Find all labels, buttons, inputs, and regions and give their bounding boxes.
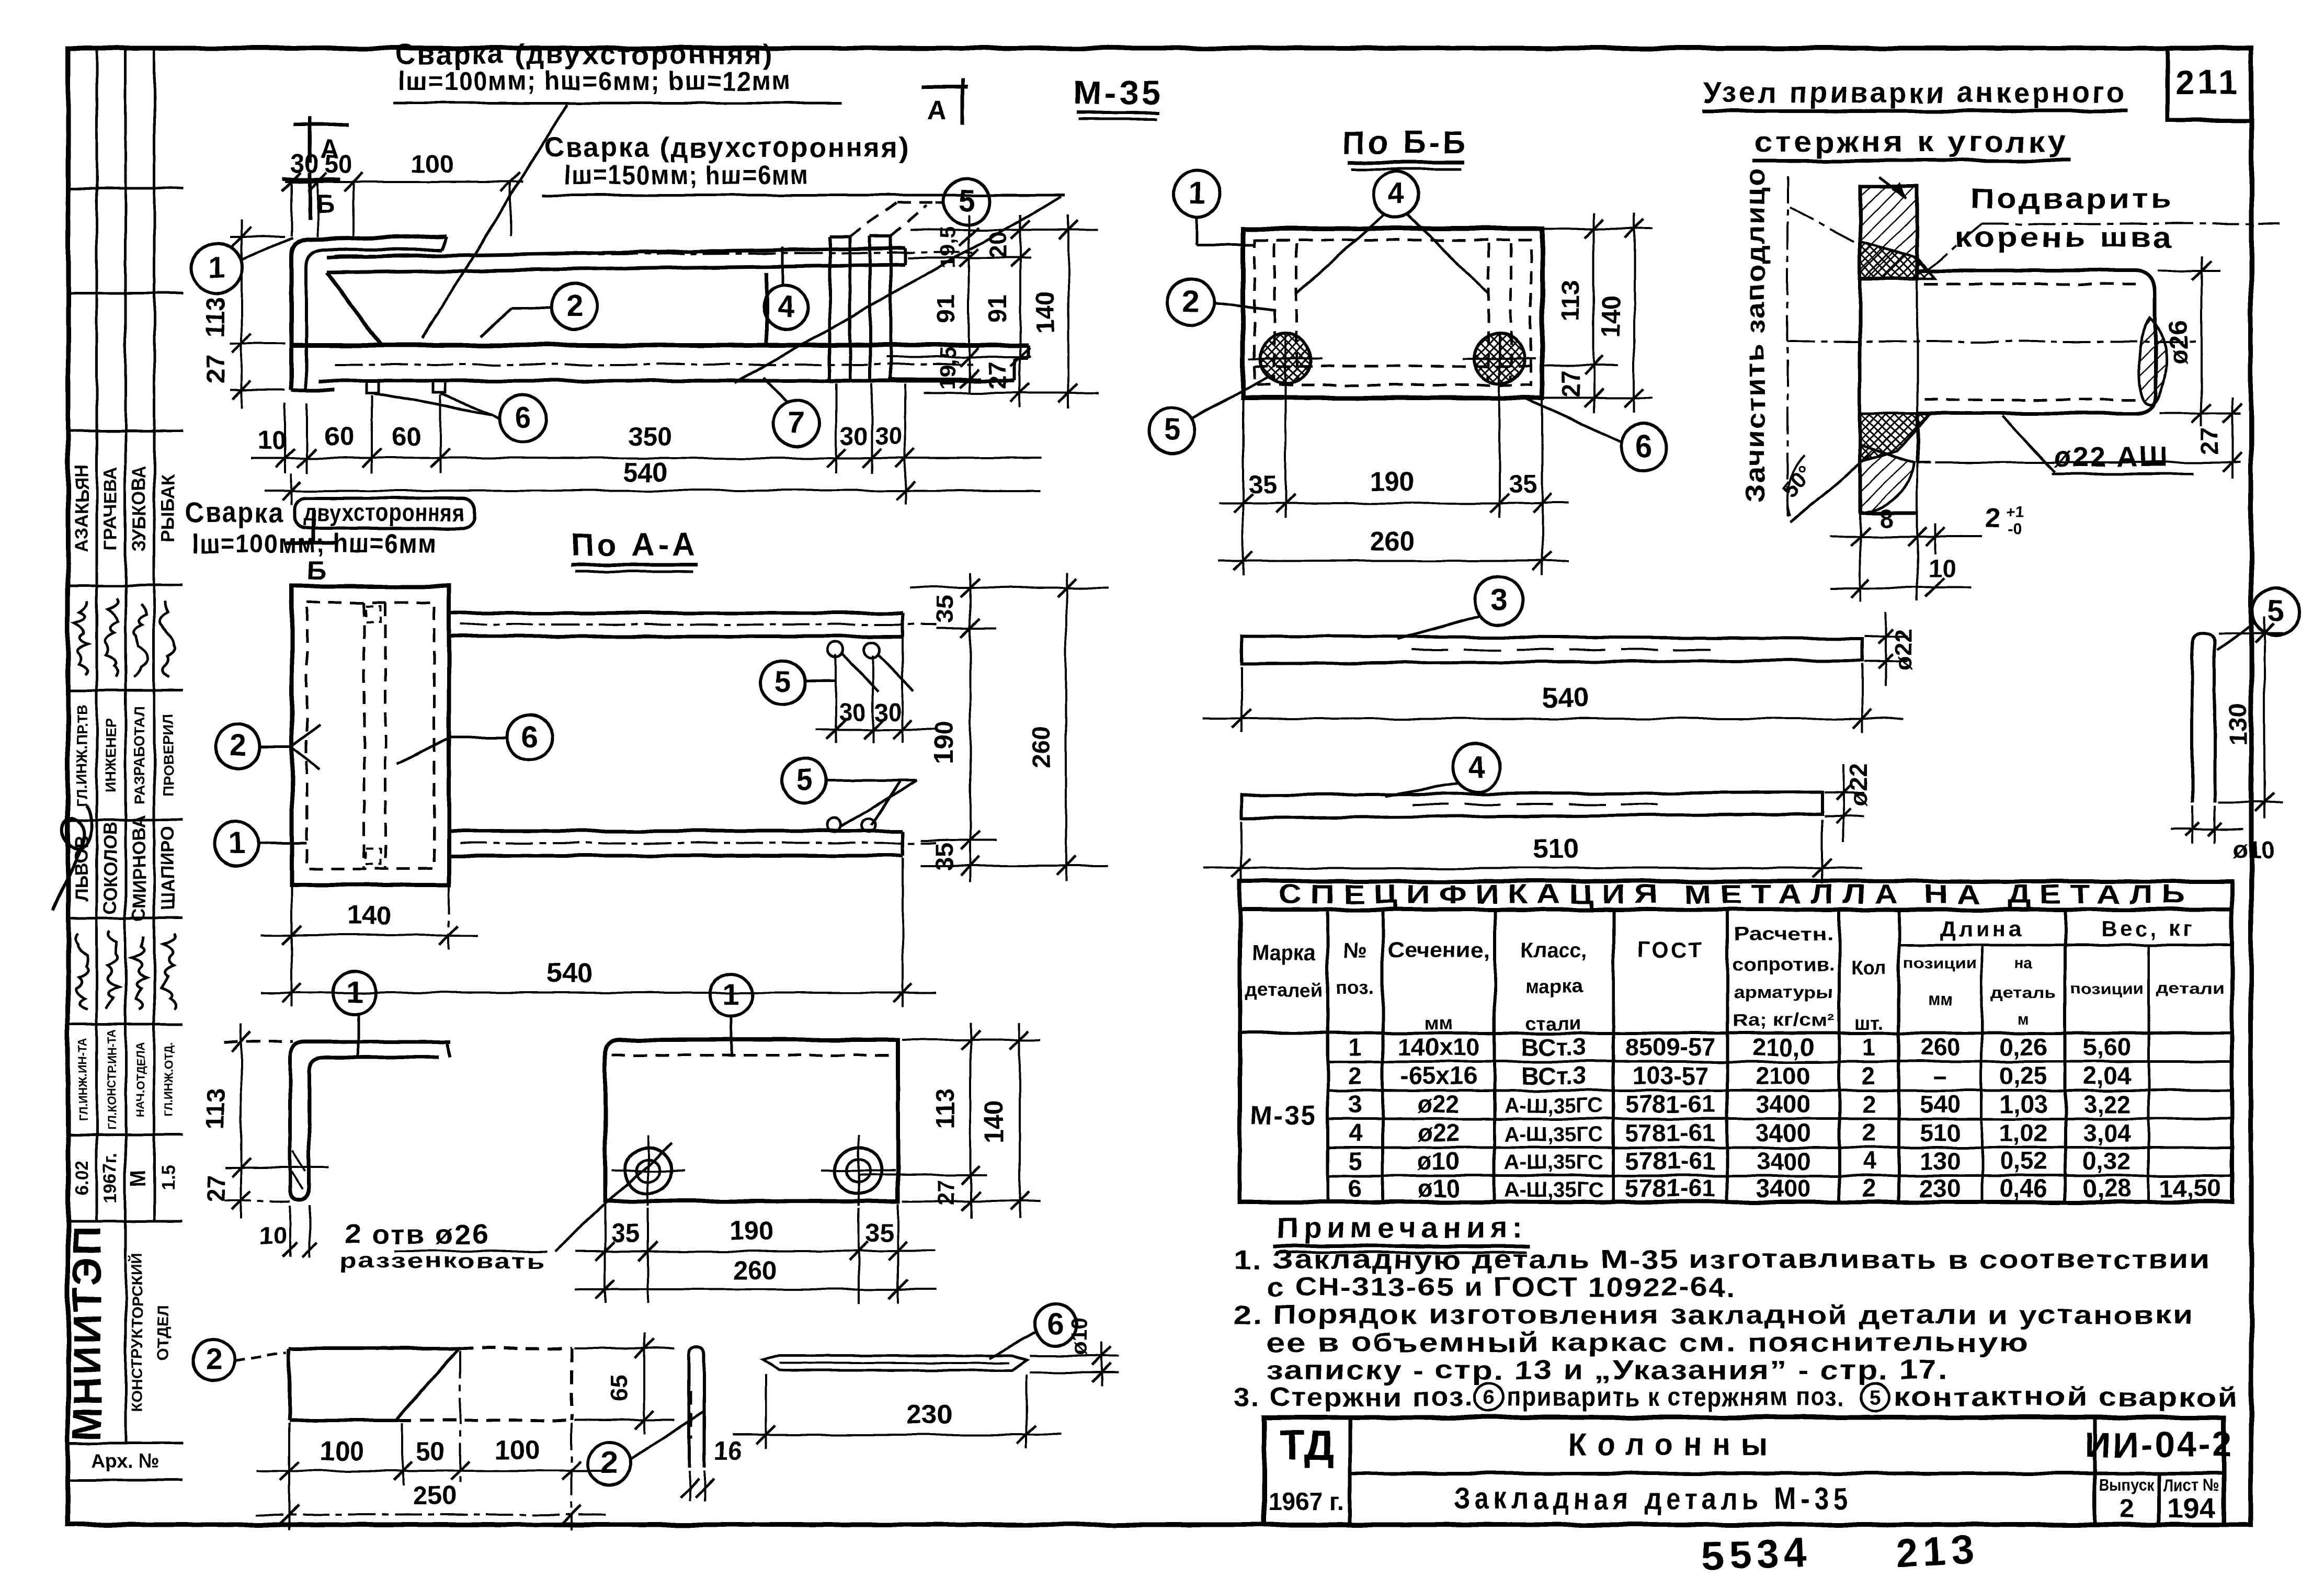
svg-text:ГРАЧЕВА: ГРАЧЕВА [100, 467, 121, 550]
svg-text:Б: Б [316, 189, 335, 219]
svg-text:ø22: ø22 [1844, 764, 1872, 806]
svg-text:2: 2 [1348, 1062, 1362, 1089]
svg-text:100: 100 [411, 150, 453, 178]
svg-text:МНИИТЭП: МНИИТЭП [65, 1224, 110, 1442]
svg-text:5534: 5534 [1701, 1530, 1813, 1579]
svg-text:1,02: 1,02 [1999, 1119, 2047, 1147]
svg-text:РАЗРАБОТАЛ: РАЗРАБОТАЛ [131, 706, 147, 804]
svg-text:ГЛ.ИНЖ.ОТД.: ГЛ.ИНЖ.ОТД. [163, 1042, 176, 1117]
svg-text:ОТДЕЛ: ОТДЕЛ [155, 1306, 172, 1359]
svg-text:ø22: ø22 [1889, 629, 1917, 671]
svg-text:91: 91 [984, 294, 1012, 323]
svg-text:М-35: М-35 [1073, 73, 1164, 112]
svg-text:2 отв ø26: 2 отв ø26 [345, 1219, 490, 1250]
svg-text:210,0: 210,0 [1752, 1033, 1814, 1061]
svg-text:2: 2 [1862, 1174, 1876, 1202]
svg-text:№: № [1343, 939, 1367, 962]
svg-text:детали: детали [2156, 980, 2224, 997]
svg-text:65: 65 [605, 1375, 633, 1402]
svg-text:1: 1 [1862, 1033, 1876, 1061]
svg-text:А-Ш,35ГС: А-Ш,35ГС [1504, 1094, 1603, 1117]
svg-text:приварить к стержням поз.: приварить к стержням поз. [1507, 1382, 1845, 1412]
svg-text:6.02: 6.02 [72, 1160, 92, 1196]
svg-text:260: 260 [1920, 1033, 1961, 1061]
svg-text:2: 2 [601, 1446, 618, 1480]
svg-text:lш=150мм; hш=6мм: lш=150мм; hш=6мм [564, 160, 810, 190]
svg-text:3. Стержни поз.: 3. Стержни поз. [1234, 1382, 1474, 1412]
svg-text:1: 1 [723, 977, 740, 1011]
svg-text:ø22 АШ: ø22 АШ [2054, 441, 2169, 473]
svg-text:6: 6 [1636, 429, 1653, 463]
svg-text:30: 30 [290, 150, 319, 178]
svg-text:ВСт.3: ВСт.3 [1521, 1062, 1586, 1089]
svg-text:130: 130 [1920, 1147, 1961, 1175]
svg-text:Марка: Марка [1252, 941, 1317, 964]
svg-text:ВСт.3: ВСт.3 [1521, 1033, 1586, 1061]
svg-text:211: 211 [2175, 63, 2240, 101]
svg-text:Узел приварки анкерного: Узел приварки анкерного [1703, 76, 2127, 109]
svg-text:двухсторонняя: двухсторонняя [303, 498, 465, 526]
svg-text:ЗУБКОВА: ЗУБКОВА [129, 466, 150, 552]
svg-text:Класс,: Класс, [1520, 939, 1587, 962]
svg-text:2: 2 [1182, 285, 1199, 319]
svg-text:35: 35 [865, 1219, 894, 1247]
svg-text:Вес, кг: Вес, кг [2101, 916, 2195, 941]
svg-text:2. Порядок изготовления заклад: 2. Порядок изготовления закладной детали… [1234, 1300, 2193, 1330]
svg-text:5,60: 5,60 [2083, 1033, 2131, 1061]
svg-text:190: 190 [930, 721, 959, 764]
svg-text:1: 1 [346, 975, 363, 1009]
svg-text:А-Ш,35ГС: А-Ш,35ГС [1504, 1178, 1603, 1201]
svg-text:корень шва: корень шва [1955, 222, 2174, 253]
svg-text:14,50: 14,50 [2159, 1174, 2221, 1202]
svg-text:Б: Б [307, 555, 326, 585]
svg-text:5: 5 [1348, 1147, 1362, 1175]
svg-text:50: 50 [416, 1438, 445, 1466]
svg-text:510: 510 [1532, 833, 1579, 864]
svg-text:-0: -0 [2008, 521, 2022, 538]
svg-text:Сварка (двухсторонняя): Сварка (двухсторонняя) [395, 39, 774, 70]
svg-text:2: 2 [1862, 1062, 1876, 1089]
svg-text:ø10: ø10 [1067, 1318, 1091, 1355]
svg-text:ТД: ТД [1280, 1422, 1334, 1468]
svg-text:ее в объемный каркас см. поясн: ее в объемный каркас см. пояснительную [1267, 1327, 2029, 1357]
svg-text:250: 250 [412, 1481, 456, 1511]
svg-text:190: 190 [1370, 467, 1414, 496]
svg-text:3400: 3400 [1756, 1174, 1811, 1202]
svg-text:РЫБАК: РЫБАК [158, 474, 178, 542]
svg-text:СПЕЦИФИКАЦИЯ МЕТАЛЛА НА ДЕТАЛЬ: СПЕЦИФИКАЦИЯ МЕТАЛЛА НА ДЕТАЛЬ [1279, 879, 2194, 909]
svg-text:5: 5 [1164, 413, 1180, 447]
svg-text:5: 5 [774, 665, 791, 699]
svg-text:контактной сваркой: контактной сваркой [1894, 1382, 2239, 1412]
svg-text:А: А [928, 95, 947, 125]
svg-text:230: 230 [1920, 1174, 1961, 1202]
svg-text:190: 190 [729, 1216, 773, 1245]
svg-text:шт.: шт. [1854, 1012, 1884, 1034]
svg-text:4: 4 [777, 290, 794, 324]
svg-text:мм: мм [1928, 990, 1953, 1009]
svg-text:5781-61: 5781-61 [1625, 1147, 1716, 1175]
svg-text:ГЛ.ИНЖ.ИН-ТА: ГЛ.ИНЖ.ИН-ТА [76, 1038, 89, 1121]
svg-text:27: 27 [201, 355, 230, 384]
svg-text:Длина: Длина [1940, 916, 2024, 941]
svg-text:113: 113 [201, 296, 230, 337]
svg-text:0,25: 0,25 [1999, 1062, 2047, 1089]
svg-text:А-Ш,35ГС: А-Ш,35ГС [1504, 1123, 1603, 1146]
svg-text:1: 1 [1189, 176, 1205, 210]
svg-text:0,46: 0,46 [1999, 1174, 2047, 1202]
svg-text:марка: марка [1525, 975, 1582, 997]
svg-text:СОКОЛОВ: СОКОЛОВ [100, 822, 121, 914]
svg-text:35: 35 [930, 596, 958, 623]
svg-text:позиции: позиции [1904, 955, 1977, 972]
svg-text:Расчетн.: Расчетн. [1734, 924, 1833, 945]
svg-text:По Б-Б: По Б-Б [1342, 124, 1469, 160]
svg-text:5: 5 [796, 763, 813, 797]
svg-text:140: 140 [347, 901, 391, 930]
svg-text:5781-61: 5781-61 [1625, 1090, 1716, 1118]
svg-text:2: 2 [205, 1342, 222, 1376]
svg-text:сопротив.: сопротив. [1733, 954, 1835, 974]
svg-text:27: 27 [933, 1180, 959, 1206]
svg-text:7: 7 [788, 406, 804, 440]
svg-text:+1: +1 [2006, 504, 2024, 521]
svg-text:27: 27 [1557, 370, 1585, 398]
svg-text:стержня к уголку: стержня к уголку [1755, 125, 2068, 158]
svg-text:Ra; кг/см²: Ra; кг/см² [1733, 1011, 1835, 1030]
svg-text:4: 4 [1388, 177, 1405, 211]
svg-text:ø22: ø22 [1418, 1090, 1460, 1118]
svg-text:1967г.: 1967г. [100, 1152, 121, 1204]
svg-text:30: 30 [874, 698, 902, 726]
svg-text:3400: 3400 [1756, 1119, 1811, 1147]
svg-text:50: 50 [325, 150, 354, 178]
svg-text:1.5: 1.5 [158, 1165, 178, 1191]
svg-text:30: 30 [875, 422, 902, 450]
svg-text:ГЛ.КОНСТР.ИН-ТА: ГЛ.КОНСТР.ИН-ТА [105, 1029, 118, 1130]
svg-text:91: 91 [932, 294, 961, 323]
svg-text:0,26: 0,26 [1999, 1033, 2047, 1061]
svg-text:арматуры: арматуры [1734, 982, 1833, 1002]
svg-text:ГОСТ: ГОСТ [1637, 937, 1704, 962]
svg-text:деталей: деталей [1245, 979, 1323, 1001]
svg-text:350: 350 [628, 422, 672, 451]
svg-text:6: 6 [1483, 1386, 1495, 1409]
svg-text:540: 540 [1920, 1090, 1961, 1118]
svg-text:27: 27 [2196, 427, 2224, 455]
svg-text:ø10: ø10 [1418, 1147, 1460, 1175]
svg-text:М: М [127, 1169, 150, 1186]
svg-text:4: 4 [1348, 1119, 1362, 1147]
svg-text:2: 2 [1862, 1090, 1876, 1118]
svg-text:ø10: ø10 [2233, 835, 2275, 863]
svg-text:60: 60 [392, 422, 421, 451]
svg-text:6: 6 [1348, 1174, 1362, 1202]
svg-text:раззенковать: раззенковать [340, 1250, 546, 1273]
svg-text:ИИ-04-2: ИИ-04-2 [2085, 1425, 2234, 1465]
svg-text:19,5: 19,5 [935, 347, 960, 390]
svg-text:Подварить: Подварить [1970, 183, 2174, 214]
svg-text:140: 140 [981, 1100, 1009, 1143]
svg-text:1: 1 [229, 826, 245, 860]
svg-text:27: 27 [984, 362, 1011, 389]
svg-text:2100: 2100 [1756, 1062, 1811, 1089]
svg-text:540: 540 [623, 457, 667, 487]
svg-text:НАЧ.ОТДЕЛА: НАЧ.ОТДЕЛА [134, 1042, 147, 1117]
svg-text:ø26: ø26 [2164, 321, 2193, 365]
svg-text:19,5: 19,5 [935, 226, 960, 269]
svg-text:6: 6 [515, 401, 531, 435]
svg-text:5: 5 [2268, 594, 2284, 628]
svg-text:записку - стр. 13 и „Указания”: записку - стр. 13 и „Указания” - стр. 17… [1267, 1355, 1949, 1385]
svg-text:мм: мм [1425, 1012, 1453, 1034]
svg-text:1,03: 1,03 [1999, 1090, 2047, 1118]
svg-text:ИНЖЕНЕР: ИНЖЕНЕР [102, 718, 119, 792]
svg-text:103-57: 103-57 [1632, 1062, 1708, 1089]
svg-text:Закладная деталь М-35: Закладная деталь М-35 [1454, 1482, 1852, 1516]
svg-text:1: 1 [209, 250, 225, 284]
svg-text:35: 35 [1248, 470, 1277, 498]
svg-text:3,22: 3,22 [2083, 1090, 2131, 1118]
svg-text:2,04: 2,04 [2083, 1062, 2131, 1089]
svg-text:Примечания:: Примечания: [1277, 1211, 1528, 1244]
svg-text:1967 г.: 1967 г. [1268, 1488, 1344, 1516]
svg-text:м: м [2018, 1011, 2029, 1028]
svg-text:20: 20 [984, 231, 1011, 258]
svg-text:ШАПИРО: ШАПИРО [158, 826, 178, 910]
svg-text:3400: 3400 [1756, 1090, 1811, 1118]
svg-text:на: на [2014, 955, 2033, 972]
svg-text:8: 8 [1879, 505, 1893, 533]
svg-text:6: 6 [1047, 1307, 1064, 1341]
svg-text:2: 2 [1862, 1119, 1876, 1147]
svg-text:Колонны: Колонны [1568, 1426, 1778, 1462]
svg-text:Зачистить заподлицо: Зачистить заподлицо [1740, 167, 1770, 502]
svg-text:Арх. №: Арх. № [91, 1450, 160, 1472]
svg-text:ПРОВЕРИЛ: ПРОВЕРИЛ [160, 714, 176, 797]
svg-text:3: 3 [1348, 1090, 1362, 1118]
svg-text:1. Закладную деталь М-35 изгот: 1. Закладную деталь М-35 изготавливать в… [1234, 1244, 2211, 1274]
svg-text:113: 113 [1557, 280, 1585, 321]
svg-text:2: 2 [566, 289, 583, 323]
svg-text:М-35: М-35 [1250, 1100, 1317, 1130]
svg-text:0,52: 0,52 [1999, 1147, 2047, 1175]
svg-text:По А-А: По А-А [571, 527, 698, 562]
svg-text:2: 2 [230, 729, 246, 763]
svg-text:35: 35 [930, 843, 958, 870]
svg-text:5: 5 [959, 184, 975, 218]
svg-text:lш=100мм; hш=6мм; bш=12мм: lш=100мм; hш=6мм; bш=12мм [398, 66, 791, 96]
svg-text:АЗАКЬЯН: АЗАКЬЯН [72, 464, 92, 552]
svg-text:10: 10 [1928, 555, 1957, 583]
svg-text:ГЛ.ИНЖ.ПР.ТВ: ГЛ.ИНЖ.ПР.ТВ [74, 704, 90, 807]
svg-text:230: 230 [906, 1399, 952, 1430]
svg-text:3400: 3400 [1756, 1147, 1811, 1175]
svg-text:0,28: 0,28 [2083, 1174, 2131, 1202]
svg-text:СМИРНОВА: СМИРНОВА [129, 815, 150, 922]
svg-text:130: 130 [2224, 703, 2252, 746]
svg-text:4: 4 [1468, 750, 1485, 784]
svg-text:Сечение,: Сечение, [1388, 939, 1490, 962]
svg-text:16: 16 [714, 1437, 743, 1465]
svg-text:3: 3 [1490, 583, 1507, 617]
svg-text:поз.: поз. [1336, 977, 1374, 998]
svg-text:113: 113 [931, 1088, 960, 1129]
svg-text:5: 5 [1870, 1386, 1881, 1409]
svg-text:5781-61: 5781-61 [1625, 1174, 1716, 1202]
svg-text:260: 260 [1370, 526, 1415, 556]
svg-text:540: 540 [1542, 682, 1589, 713]
svg-text:113: 113 [202, 1088, 230, 1129]
svg-text:260: 260 [1028, 725, 1056, 768]
svg-text:140: 140 [1597, 295, 1625, 338]
svg-text:10: 10 [260, 1221, 287, 1249]
svg-text:540: 540 [546, 957, 594, 989]
svg-text:с СН-313-65 и ГОСТ 10922-64.: с СН-313-65 и ГОСТ 10922-64. [1267, 1272, 1736, 1302]
svg-text:30: 30 [840, 422, 868, 450]
svg-text:КОНСТРУКТОРСКИЙ: КОНСТРУКТОРСКИЙ [128, 1253, 146, 1412]
svg-text:2: 2 [2120, 1495, 2134, 1524]
svg-text:–: – [1933, 1062, 1947, 1089]
svg-text:8509-57: 8509-57 [1625, 1033, 1716, 1061]
svg-text:Кол: Кол [1851, 957, 1887, 978]
svg-text:194: 194 [2168, 1493, 2215, 1524]
svg-text:5781-61: 5781-61 [1625, 1119, 1716, 1147]
svg-text:-65x16: -65x16 [1400, 1062, 1477, 1089]
svg-text:деталь: деталь [1991, 984, 2056, 1002]
svg-text:lш=100мм; hш=6мм: lш=100мм; hш=6мм [191, 528, 437, 558]
svg-text:100: 100 [495, 1435, 540, 1465]
svg-text:Сварка: Сварка [185, 497, 284, 528]
svg-text:510: 510 [1920, 1119, 1961, 1147]
svg-text:позиции: позиции [2070, 980, 2144, 997]
svg-text:10: 10 [258, 426, 287, 455]
svg-text:60: 60 [325, 422, 355, 451]
svg-text:Лист №: Лист № [2164, 1475, 2219, 1495]
svg-text:А-Ш,35ГС: А-Ш,35ГС [1504, 1151, 1603, 1174]
svg-text:ø10: ø10 [1418, 1174, 1460, 1202]
svg-text:2: 2 [1985, 502, 2000, 534]
svg-text:260: 260 [732, 1255, 777, 1285]
svg-text:140: 140 [1032, 291, 1060, 334]
svg-text:6: 6 [521, 720, 538, 754]
svg-text:4: 4 [1862, 1147, 1876, 1175]
svg-text:ø22: ø22 [1418, 1119, 1460, 1147]
svg-text:0,32: 0,32 [2083, 1147, 2131, 1175]
svg-text:1: 1 [1348, 1033, 1362, 1061]
svg-text:100: 100 [320, 1436, 364, 1466]
svg-text:3,04: 3,04 [2083, 1119, 2131, 1147]
svg-text:140x10: 140x10 [1398, 1033, 1480, 1061]
svg-text:35: 35 [1509, 470, 1537, 498]
svg-text:Выпуск: Выпуск [2100, 1475, 2155, 1495]
svg-text:Сварка (двухсторонняя): Сварка (двухсторонняя) [544, 132, 910, 163]
svg-text:213: 213 [1894, 1527, 1979, 1576]
svg-text:35: 35 [611, 1219, 640, 1247]
svg-text:27: 27 [202, 1175, 230, 1202]
svg-text:30: 30 [839, 698, 866, 726]
svg-text:стали: стали [1526, 1012, 1581, 1034]
